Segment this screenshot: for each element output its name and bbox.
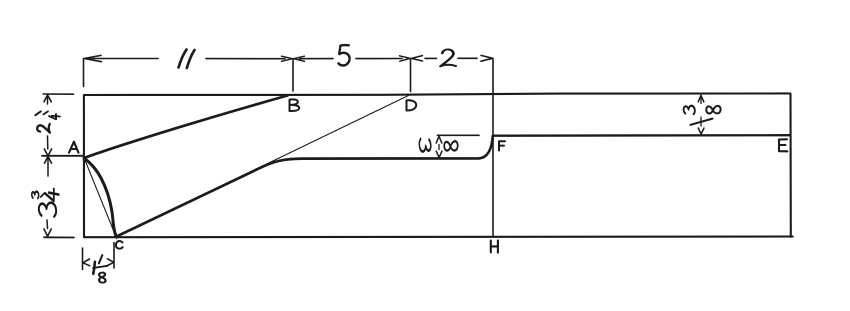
label F <box>499 141 505 150</box>
extension line at B <box>292 60 294 92</box>
3/8 dimension near E arrow line <box>698 95 704 102</box>
blade tip curve A-C <box>84 158 117 237</box>
numeral 11 strokes <box>179 50 187 68</box>
dimension line 11-5-2 shaft segments <box>89 57 477 59</box>
left top reference tick at top edge level <box>43 93 73 95</box>
numeral 5 <box>338 45 349 65</box>
3/8 near F rotated numerator 3 <box>419 139 430 152</box>
3/8 near E rotated numerator 3 <box>684 106 695 114</box>
blade edge C to F <box>117 136 493 236</box>
rotated denominator 4 of 2-1/4 <box>49 114 60 119</box>
label H <box>491 240 498 252</box>
arrowheads of 1-1/8 dimension <box>83 259 90 266</box>
label E <box>779 139 787 151</box>
label C <box>116 241 123 249</box>
label B <box>290 99 300 111</box>
numeral 2 <box>441 49 456 66</box>
dimension 3-3/4 arrows <box>45 156 52 163</box>
small numerator 1 of 1/8 <box>99 255 102 263</box>
label D <box>407 100 417 110</box>
tang top line F-E <box>493 134 790 137</box>
rotated denominator 4 of 3-3/4 <box>45 189 58 201</box>
dimension right corner arrow pointing right <box>481 55 493 61</box>
fraction slash of 2-1/4 <box>43 111 48 114</box>
fraction bar of 1-1/8 <box>93 266 108 268</box>
3/8 near E rotated denominator 8 <box>706 106 720 114</box>
rotated big 3 of 3-3/4 <box>39 203 56 217</box>
label A <box>69 142 79 153</box>
extension line at D <box>410 60 412 92</box>
arrowhead left end of 11 <box>84 55 101 61</box>
rotated numerator 1 of 2-1/4 <box>35 111 41 115</box>
rotated 2 of 2-1/4 <box>37 124 50 133</box>
blade spine line A-B <box>84 96 288 159</box>
rotated numerator 3 of 3-3/4 <box>32 192 39 199</box>
denominator 8 of 1-1/8 <box>99 273 105 283</box>
thin construction line C-D <box>117 95 410 237</box>
extension lines for 1-1/8 dimension below C <box>82 248 84 270</box>
thin chord A-C <box>84 159 116 237</box>
fraction slash near E <box>691 119 713 125</box>
dimension 2-1/4 arrows <box>47 96 49 104</box>
vertical line H from dimension corner to bottom edge <box>492 58 494 237</box>
fraction slash of 3-3/4 <box>41 193 45 197</box>
3/8 near F arrow line <box>436 136 442 143</box>
bar outline rectangle <box>84 93 793 237</box>
dimension text 1-1/8 : big 1 <box>93 262 95 274</box>
dimension left corner with down leg <box>83 59 85 87</box>
bottom foot of 3-3/4 dimension <box>44 236 74 238</box>
3/8 near F rotated denominator 8 <box>444 141 457 150</box>
tick at A level <box>42 155 83 157</box>
3/8 dimension near F reference line <box>438 134 480 136</box>
arrowheads at D extension <box>400 56 411 61</box>
arrowheads at B extension <box>282 56 293 61</box>
